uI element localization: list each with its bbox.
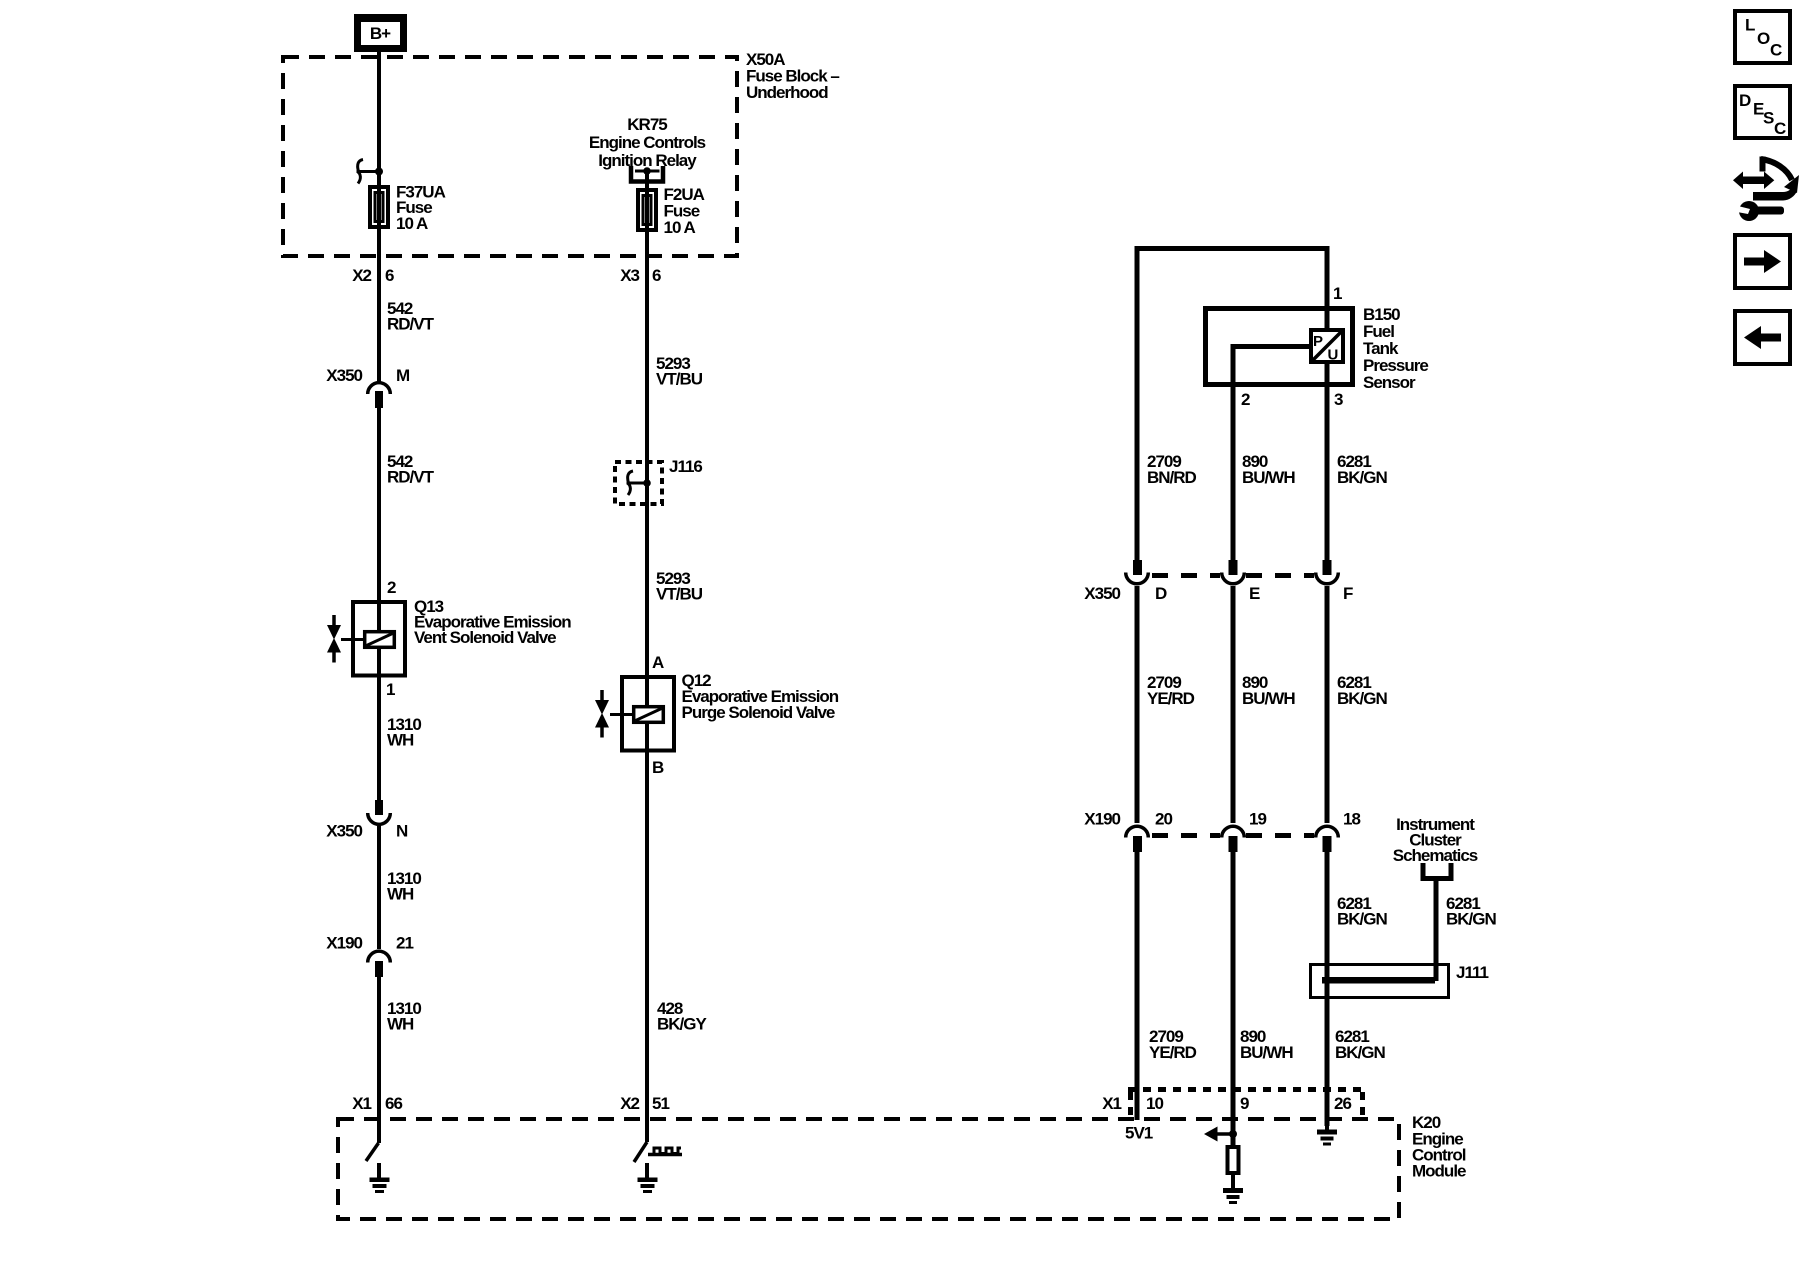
ECM K20 dashed box xyxy=(338,1119,1399,1219)
svg-text:9: 9 xyxy=(1240,1094,1249,1113)
svg-text:J116: J116 xyxy=(669,457,702,476)
solenoid valve Q13 symbol xyxy=(341,600,405,678)
wire F2UA to J116 xyxy=(645,232,649,504)
fuse F2UA label: F2UA Fuse 10 A xyxy=(664,185,705,237)
svg-text:20: 20 xyxy=(1155,810,1172,829)
next page arrow button xyxy=(1735,235,1790,288)
svg-text:X350: X350 xyxy=(326,822,362,841)
pressure transducer P/U symbol inside B150 xyxy=(1311,330,1343,364)
svg-text:O: O xyxy=(1757,29,1770,48)
wire X190 20 to ECM X1 10 xyxy=(1135,852,1140,1120)
connector X350 pin E xyxy=(1222,560,1260,603)
pin X2 6 at fuse block xyxy=(352,266,394,285)
battery positive terminal B+ xyxy=(354,14,407,52)
svg-text:2: 2 xyxy=(1241,390,1250,409)
svg-text:X2: X2 xyxy=(352,266,371,285)
svg-text:BK/GN: BK/GN xyxy=(1337,689,1388,708)
switch blade at X1 66 xyxy=(366,1143,379,1161)
svg-text:A: A xyxy=(652,653,664,672)
svg-text:RD/VT: RD/VT xyxy=(387,315,435,334)
splice pack J111 xyxy=(1311,965,1449,998)
sensor B150 label xyxy=(1363,305,1428,392)
ground inside ECM at X1 66 xyxy=(370,1163,390,1193)
svg-text:RD/VT: RD/VT xyxy=(387,468,435,487)
svg-text:BK/GY: BK/GY xyxy=(657,1015,708,1034)
svg-text:M: M xyxy=(396,366,410,385)
svg-text:5V1: 5V1 xyxy=(1125,1124,1153,1143)
fuse F37UA symbol xyxy=(370,185,388,229)
DESC nav button xyxy=(1735,86,1790,138)
svg-text:BK/GN: BK/GN xyxy=(1335,1043,1386,1062)
svg-text:Purge Solenoid Valve: Purge Solenoid Valve xyxy=(682,703,835,722)
junction dot above F37UA xyxy=(375,168,383,176)
svg-text:X3: X3 xyxy=(620,266,639,285)
wire label 2709 BN/RD xyxy=(1147,452,1197,487)
fuse F2UA symbol xyxy=(638,188,656,232)
svg-text:10 A: 10 A xyxy=(396,214,428,233)
svg-text:BK/GN: BK/GN xyxy=(1446,910,1497,929)
wire pin 3 down (6281 BK/GN) xyxy=(1325,364,1330,560)
svg-text:D: D xyxy=(1155,584,1167,603)
wire label 6281 BK/GN (pin 18 branch) xyxy=(1337,894,1388,929)
svg-text:C: C xyxy=(1774,119,1786,138)
svg-text:26: 26 xyxy=(1334,1094,1351,1113)
svg-text:C: C xyxy=(1770,41,1782,60)
off-page bracket to instrument cluster xyxy=(1423,863,1451,879)
svg-text:51: 51 xyxy=(652,1094,669,1113)
svg-text:BK/GN: BK/GN xyxy=(1337,468,1388,487)
wire Q12 to ECM X2 51 xyxy=(645,750,649,1142)
wire label 1310 WH (upper) xyxy=(387,715,421,750)
svg-text:6: 6 xyxy=(385,266,394,285)
svg-text:X190: X190 xyxy=(326,934,362,953)
svg-text:19: 19 xyxy=(1249,810,1266,829)
fuse block X50A dashed box xyxy=(283,57,737,256)
relay KR75 contact symbol xyxy=(631,166,663,182)
svg-text:BN/RD: BN/RD xyxy=(1147,468,1197,487)
wire label 2709 YE/RD (row 3) xyxy=(1149,1027,1197,1062)
svg-text:YE/RD: YE/RD xyxy=(1149,1043,1197,1062)
connector X190 pin 21 xyxy=(326,934,413,978)
wire F37UA to X350 M xyxy=(377,229,381,382)
svg-text:66: 66 xyxy=(385,1094,402,1113)
svg-text:WH: WH xyxy=(387,1015,414,1034)
svg-text:X190: X190 xyxy=(1084,810,1120,829)
relay KR75 label xyxy=(589,115,706,170)
wire label 1310 WH (lower) xyxy=(387,999,421,1034)
solenoid valve Q12 symbol xyxy=(610,675,674,753)
vehicle routing icon xyxy=(1733,157,1799,222)
wire label 2709 YE/RD (row 2) xyxy=(1147,673,1195,708)
wire label 428 BK/GY xyxy=(657,999,708,1034)
PWM signal symbol at X2 51 xyxy=(648,1148,682,1155)
wire pin 1 into P/U transducer xyxy=(1325,246,1330,330)
svg-text:WH: WH xyxy=(387,885,414,904)
connector X350 pin F xyxy=(1316,560,1353,603)
svg-text:X1: X1 xyxy=(1102,1094,1121,1113)
svg-text:1: 1 xyxy=(386,680,395,699)
wire X350 E to X190 19 xyxy=(1231,586,1236,823)
svg-text:B: B xyxy=(652,758,664,777)
svg-text:YE/RD: YE/RD xyxy=(1147,689,1195,708)
svg-text:Ignition Relay: Ignition Relay xyxy=(598,151,697,170)
pull resistor inside ECM xyxy=(1228,1136,1239,1173)
svg-text:BU/WH: BU/WH xyxy=(1242,468,1295,487)
ECM K20 label xyxy=(1412,1113,1466,1181)
wire J116 to Q12 xyxy=(645,504,649,677)
svg-text:KR75: KR75 xyxy=(627,115,667,134)
svg-text:N: N xyxy=(396,822,408,841)
svg-text:X2: X2 xyxy=(620,1094,639,1113)
svg-text:F: F xyxy=(1343,584,1353,603)
wire X350 N to X190 21 xyxy=(377,826,381,949)
svg-text:3: 3 xyxy=(1334,390,1343,409)
ground at pin 26 xyxy=(1317,1121,1337,1146)
svg-text:VT/BU: VT/BU xyxy=(656,585,703,604)
wire label 5293 VT/BU (upper) xyxy=(656,354,703,389)
fuse block X50A label xyxy=(746,50,839,102)
wire label 890 BU/WH (row 2) xyxy=(1242,673,1295,708)
wire label 6281 BK/GN (row 1) xyxy=(1337,452,1388,487)
svg-text:18: 18 xyxy=(1343,810,1360,829)
signal arrow at pin 9 xyxy=(1204,1127,1233,1142)
svg-text:10: 10 xyxy=(1146,1094,1163,1113)
wire pin 2 from P/U transducer xyxy=(1231,344,1311,560)
svg-text:Module: Module xyxy=(1412,1162,1466,1181)
connector X190 pin 18 xyxy=(1316,810,1361,853)
connector X190 dashed line xyxy=(1152,833,1314,838)
svg-text:D: D xyxy=(1739,91,1751,110)
svg-text:VT/BU: VT/BU xyxy=(656,370,703,389)
pin X3 6 at fuse block xyxy=(620,266,661,285)
connector X350 pin N xyxy=(326,800,408,841)
instrument cluster schematics label xyxy=(1393,815,1478,865)
ECM connector X1 dotted box xyxy=(1128,1090,1363,1118)
wire label 890 BU/WH (row 1) xyxy=(1242,452,1295,487)
connector X190 pin 20 xyxy=(1126,810,1173,853)
clip terminal inside J116 xyxy=(627,471,650,495)
svg-text:Schematics: Schematics xyxy=(1393,846,1478,865)
Q12 label: Evaporative Emission Purge Solenoid Valve xyxy=(682,671,839,722)
wire label 5293 VT/BU (lower) xyxy=(656,569,703,604)
wire label 6281 BK/GN (cluster branch) xyxy=(1446,894,1497,929)
wire label 542 RD/VT (lower) xyxy=(387,452,435,487)
previous page arrow button xyxy=(1735,311,1790,364)
svg-text:J111: J111 xyxy=(1456,963,1488,982)
connector X190 pin 19 xyxy=(1222,810,1267,853)
wire label 542 RD/VT (upper) xyxy=(387,299,435,334)
wire relay to fuse F2UA xyxy=(645,171,649,188)
fuel tank pressure sensor B150 box xyxy=(1206,309,1353,385)
svg-text:X350: X350 xyxy=(326,366,362,385)
svg-text:Engine Controls: Engine Controls xyxy=(589,133,706,152)
valve symbol of Q12 xyxy=(595,690,609,738)
svg-text:BU/WH: BU/WH xyxy=(1242,689,1295,708)
wire X190 19 to ECM X1 9 xyxy=(1231,852,1236,1136)
wire X190 21 to ECM X1 66 xyxy=(377,977,381,1143)
svg-text:S: S xyxy=(1763,109,1774,128)
wire X350 M to Q13 xyxy=(377,408,381,602)
clip terminal at F37UA xyxy=(357,160,380,184)
wire from B+ to fuse F37UA xyxy=(377,51,381,185)
connector X350 dashed line xyxy=(1152,573,1314,578)
ground below resistor xyxy=(1223,1173,1243,1204)
svg-text:E: E xyxy=(1249,584,1260,603)
wire label 6281 BK/GN (row 2) xyxy=(1337,673,1388,708)
connector X350 pin D xyxy=(1126,560,1167,603)
wire sensor pin 1 branch down left (2709 BN/RD) xyxy=(1135,246,1140,560)
junction dot at pin 9 xyxy=(1229,1130,1237,1138)
wire label 1310 WH (middle) xyxy=(387,869,421,904)
svg-text:10 A: 10 A xyxy=(664,218,696,237)
svg-text:U: U xyxy=(1328,347,1339,364)
wire Q13 to X350 N xyxy=(377,677,381,800)
LOC nav button xyxy=(1735,11,1790,63)
wire label 6281 BK/GN (row 3) xyxy=(1335,1027,1386,1062)
svg-text:2: 2 xyxy=(387,578,396,597)
svg-text:Underhood: Underhood xyxy=(746,83,828,102)
svg-text:Sensor: Sensor xyxy=(1363,373,1416,392)
pin X2 51 of ECM xyxy=(620,1094,669,1113)
svg-text:X350: X350 xyxy=(1084,584,1120,603)
svg-text:BK/GN: BK/GN xyxy=(1337,910,1388,929)
wire X190 18 to ECM X1 26 xyxy=(1325,852,1330,1126)
svg-text:P: P xyxy=(1313,333,1323,350)
wire label 890 BU/WH (row 3) xyxy=(1240,1027,1293,1062)
switch blade at X2 51 xyxy=(634,1142,647,1162)
wire X350 F to X190 18 xyxy=(1325,586,1330,823)
svg-text:21: 21 xyxy=(396,934,413,953)
svg-text:BU/WH: BU/WH xyxy=(1240,1043,1293,1062)
valve symbol of Q13 xyxy=(327,615,341,663)
wire instrument cluster to J111 xyxy=(1434,881,1439,981)
connector X350 pin M xyxy=(326,366,410,408)
svg-text:6: 6 xyxy=(652,266,661,285)
svg-text:1: 1 xyxy=(1333,284,1342,303)
fuse F37UA label: F37UA Fuse 10 A xyxy=(396,183,446,234)
svg-text:L: L xyxy=(1745,16,1755,35)
junction dot in J116 xyxy=(643,479,651,487)
Q13 label: Evaporative Emission Vent Solenoid Valve xyxy=(414,597,571,647)
svg-text:Vent Solenoid Valve: Vent Solenoid Valve xyxy=(414,628,556,647)
svg-text:X1: X1 xyxy=(352,1094,371,1113)
ground inside ECM at X2 51 xyxy=(638,1163,658,1193)
svg-text:B+: B+ xyxy=(370,24,391,43)
pin X1 66 of ECM xyxy=(352,1094,402,1113)
splice J116 dashed box xyxy=(615,462,662,504)
svg-text:WH: WH xyxy=(387,731,414,750)
wire top horizontal from sensor pin 1 xyxy=(1135,246,1330,251)
wire X350 D to X190 20 xyxy=(1135,586,1140,823)
